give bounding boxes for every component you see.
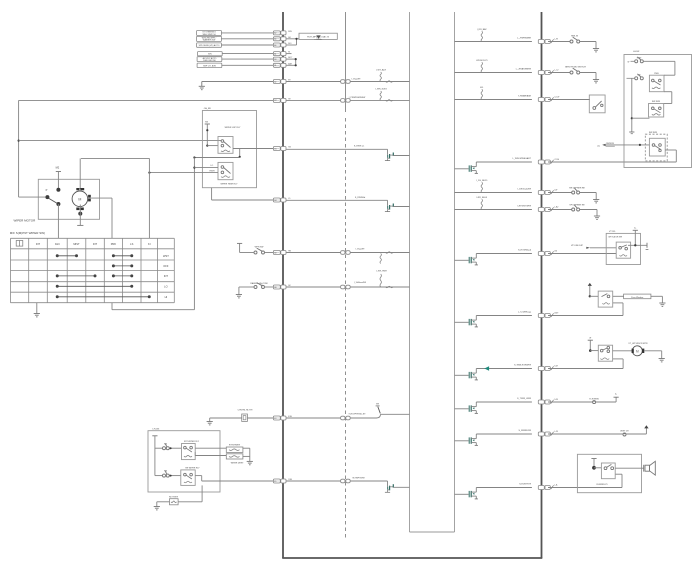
output wire y=434.0 from driver to bus-B — [476, 433, 532, 435]
svg-text:L-W: L-W — [554, 431, 558, 433]
vertical x=112 into table PRK column — [111, 198, 113, 238]
wire L1 to power — [596, 401, 616, 403]
svg-text:9-M: 9-M — [554, 365, 558, 367]
supply wire y=72.5 from inner rail to bus-B — [455, 72, 532, 74]
svg-text:WPR SW: WPR SW — [255, 246, 264, 248]
svg-text:RLWRRLY9: RLWRRLY9 — [596, 484, 608, 486]
relay K4 contacts — [184, 473, 187, 476]
input label box B6 — [197, 63, 222, 68]
internal wire y=287 bus-A to inner module — [286, 286, 409, 288]
svg-text:I_DEGradaW9: I_DEGradaW9 — [517, 188, 532, 191]
connector on partition y=481 — [341, 479, 345, 483]
bus-B connector at y=72.5 — [538, 71, 544, 75]
wire from left rail into motor box — [19, 196, 46, 198]
wire to ground y=72.5 — [580, 72, 596, 74]
teal direction arrow on wire y=368.5 — [484, 366, 489, 371]
relay K8 box inside VT RD — [616, 242, 630, 258]
wire y=81.5 to bus-A — [202, 81, 273, 83]
wire relay K3 to resistor R1 — [195, 447, 226, 449]
pass window module box — [624, 294, 651, 299]
svg-text:INT: INT — [164, 274, 169, 278]
power arrow T9 — [644, 425, 648, 428]
svg-text:A1: A1 — [274, 52, 276, 55]
wire feed to relay 1 lower contact — [207, 145, 218, 147]
wire to ground y=41.5 — [580, 41, 596, 43]
ground below R2 link — [247, 460, 253, 462]
svg-text:RT9GRWR9: RT9GRWR9 — [229, 444, 241, 446]
wire to SW3 — [155, 447, 163, 449]
supply wire y=209.5 from inner rail to bus-B — [455, 209, 532, 211]
wire S5 right — [643, 60, 675, 62]
output wire y=487.5 from driver to bus-B — [476, 487, 532, 489]
lamp L2 — [623, 433, 626, 436]
hood switch box — [589, 95, 605, 113]
driver transistor Q at y=368.5 — [455, 374, 469, 376]
output wire y=315.5 from driver to bus-B — [476, 315, 532, 317]
chime loop riser — [621, 474, 623, 487]
svg-text:INT: INT — [93, 242, 98, 246]
svg-text:T-RWARIASE: T-RWARIASE — [518, 95, 531, 98]
svg-text:WRWR DER9: WRWR DER9 — [231, 462, 244, 464]
relay K4 RR WIPER RLY box — [181, 470, 195, 486]
svg-text:IGN: IGN — [55, 242, 60, 246]
relay K3 FRT WIPER RLY box — [182, 444, 196, 460]
wire y=41.5 to horn switch — [548, 41, 570, 43]
relay K2 contacts — [221, 166, 224, 169]
relay K5 box in LH BOX — [649, 75, 664, 92]
svg-text:RWL M: RWL M — [571, 36, 578, 38]
relay K3 coil — [184, 455, 192, 457]
dashed relay box in LH BOX — [645, 134, 667, 161]
inner sub-module left edge — [409, 12, 411, 532]
svg-text:W9: W9 — [376, 403, 379, 405]
svg-text:E3: E3 — [274, 418, 276, 420]
svg-text:VP USE SJP: VP USE SJP — [571, 245, 584, 247]
resistor R3 RLY3GR box — [170, 499, 179, 505]
wire y=402 to turn signal — [548, 401, 593, 403]
bus-B connector at y=487.5 — [538, 486, 544, 490]
svg-text:LS: LS — [130, 242, 133, 246]
svg-text:VT_WP WSCR MTR: VT_WP WSCR MTR — [628, 343, 648, 345]
diode D1 — [316, 35, 321, 38]
svg-text:L-W: L-W — [554, 38, 558, 40]
svg-text:A2: A2 — [274, 32, 276, 35]
svg-text:M: M — [636, 349, 639, 353]
bus-B connector at y=253.5 — [538, 252, 544, 256]
S6 drop rail — [631, 78, 633, 132]
control relay component box — [242, 414, 248, 421]
svg-text:I_9rWaaaW9: I_9rWaaaW9 — [354, 281, 367, 284]
svg-text:S_WWRLRW: S_WWRLRW — [518, 430, 531, 432]
wire from box B2 to connector — [221, 38, 273, 40]
fuse I-RR_BLE9 — [481, 199, 482, 209]
input label box B5 — [197, 57, 222, 62]
bus-B connector at y=162.0 — [538, 160, 544, 164]
wire to SW4 — [155, 475, 163, 477]
svg-text:L_WW WIWEGART: L_WW WIWEGART — [513, 157, 532, 160]
driver transistor Q1 — [387, 149, 389, 154]
power tap inside chime box — [591, 458, 596, 460]
svg-text:RLY9GR9: RLY9GR9 — [169, 496, 179, 498]
svg-text:MIST: MIST — [73, 242, 80, 246]
park switch contacts — [56, 188, 60, 192]
lamp L1 — [593, 401, 596, 404]
chime feed node — [592, 466, 596, 470]
svg-text:L_-PWRWM9E: L_-PWRWM9E — [517, 38, 532, 40]
park contact P — [45, 195, 49, 199]
internal wire y=81.5 bus-A to inner module — [286, 81, 409, 83]
input label box B3 — [197, 43, 222, 47]
relay K1 output wire y=148.5 to bus-A — [233, 148, 273, 150]
svg-text:HI: HI — [165, 295, 168, 299]
svg-text:WASHER SW: WASHER SW — [203, 39, 216, 42]
svg-text:B3: B3 — [274, 59, 276, 61]
svg-text:MW: MW — [288, 31, 292, 33]
LH BOX outer box — [624, 55, 692, 168]
internal wire y=481 to driver Q3 — [286, 480, 387, 482]
motor top feed vertical x=80.2 — [79, 158, 81, 189]
wire y=209.5 to front defogger switch — [548, 209, 572, 211]
bus-A connector at y=481.0 — [273, 479, 280, 483]
svg-text:VT RD: VT RD — [609, 231, 616, 233]
relay K3 contacts — [184, 446, 187, 449]
wire y=140.6 to wiper relay box — [19, 140, 221, 142]
K7 link down to wire y=162 — [675, 150, 677, 162]
wire y=501.8 to resistor R3 — [178, 501, 202, 503]
svg-text:DEFOGR SW: DEFOGR SW — [203, 60, 215, 62]
front defogger switch — [572, 208, 575, 211]
svg-text:(1): (1) — [598, 145, 601, 147]
wire y=487.5 into chime box — [548, 487, 622, 489]
svg-text:Pass Window: Pass Window — [631, 297, 644, 299]
power tap T8 — [614, 396, 619, 398]
rear defogger switch — [572, 191, 575, 194]
connector on partition y=287 — [341, 285, 345, 289]
node joining rows 59.1/65.3 right of bus-A — [286, 58, 296, 60]
driver transistor Q at y=162.0 — [455, 168, 469, 170]
fuse I_RR_BAT — [481, 31, 482, 41]
ground G8 — [593, 199, 599, 201]
wire from box B6 to connector — [222, 64, 273, 66]
washer motor ground — [644, 350, 661, 352]
park switch blade — [49, 198, 57, 203]
svg-text:SPD SENS (VD) AUTO: SPD SENS (VD) AUTO — [199, 44, 220, 47]
ground for control relay wire — [209, 418, 211, 422]
wiper switch logic table grid — [11, 238, 175, 302]
svg-text:S_TWW_LWW: S_TWW_LWW — [517, 398, 531, 400]
svg-text:C2-M: C2-M — [554, 159, 559, 161]
FLEX MFD VD LVA LTD box — [299, 33, 337, 39]
bus-A connector at y=287.0 — [273, 285, 280, 289]
relay K5 to K6 link — [671, 92, 673, 104]
bus-B connector at y=41.5 — [538, 40, 544, 44]
vertical from relay K1 output x=239.7 — [239, 149, 241, 158]
wire y=162 to LH BOX — [548, 161, 676, 163]
wire y=252.5 to bus-A — [240, 252, 254, 254]
junction x=149.4 y=172.6 — [148, 172, 150, 174]
wire K6 left to drop rail — [632, 117, 650, 119]
svg-text:WWT D9: WWT D9 — [620, 431, 629, 433]
bus-B connector at y=315.5 — [538, 314, 544, 318]
washer switch box — [598, 345, 612, 361]
svg-text:B2: B2 — [274, 81, 276, 83]
vertical node rail x=194.4 — [193, 158, 195, 310]
svg-text:I_RR_BAT: I_RR_BAT — [476, 28, 487, 31]
driver transistor Q3 — [387, 481, 389, 486]
svg-text:RW RW9: RW RW9 — [649, 132, 658, 134]
svg-text:WHL SWITCH: WHL SWITCH — [203, 34, 216, 36]
internal wire y=252.5 bus-A to inner module — [286, 252, 409, 254]
output wire y=402.0 from driver to bus-B — [476, 401, 532, 403]
ground drop y=192.5 — [580, 192, 597, 194]
wiper switch SW1 — [254, 251, 257, 254]
svg-text:I-RTWGTWR9: I-RTWGTWR9 — [518, 206, 532, 208]
link R1/R2 right ends — [243, 447, 250, 449]
wire y=100.4 from far-left rail to bus-A — [19, 99, 274, 101]
bus-A connector at y=53.6 — [273, 52, 280, 56]
svg-text:M2: M2 — [274, 252, 277, 254]
relay contact on wire y=418 — [376, 405, 380, 407]
connector on partition y=81.5 — [341, 80, 345, 84]
fuse F1 on wire y=81.5 — [380, 72, 381, 82]
internal partition line (solid top) — [345, 12, 347, 112]
relay K4 output wire to bus-A — [195, 475, 202, 477]
wire y=192.5 to rear defogger switch — [548, 192, 572, 194]
svg-text:I-W: I-W — [554, 189, 557, 191]
svg-text:TLRGWW: TLRGWW — [589, 398, 599, 400]
fuse I_DS_BLR9 — [481, 182, 482, 192]
ground G1 at left end of wire y=81.5 — [201, 82, 203, 87]
svg-text:C9NTRL RLY99: C9NTRL RLY99 — [238, 410, 254, 412]
far-left vertical rail x=18.6 — [18, 100, 20, 197]
bus-A connector at y=148.5 — [273, 147, 280, 151]
wire to speaker — [615, 467, 644, 469]
power tap for washer box — [588, 339, 593, 341]
motor right output wire — [91, 197, 112, 199]
svg-text:LH BX: LH BX — [633, 51, 640, 53]
ground drop y=209.5 — [580, 209, 597, 211]
rain sensor switch SW2 — [254, 286, 257, 289]
wire y=99.5 to hood switch box — [548, 99, 590, 101]
svg-text:I-RR_BLE9: I-RR_BLE9 — [477, 197, 488, 199]
junction x=194.4 y=167.6 — [193, 167, 195, 169]
internal wire y=418 with relay contact jog — [286, 417, 376, 419]
svg-text:W: W — [628, 61, 630, 63]
bus-A connector at y=32.9 — [273, 31, 280, 35]
brake fluid switch — [570, 71, 573, 74]
wire y=200 to bus-A — [212, 199, 274, 201]
motor M1 body — [72, 191, 88, 207]
wire R3 left to ground — [157, 501, 170, 503]
svg-text:C2-W: C2-W — [554, 96, 559, 98]
svg-text:S_RWW9d: S_RWW9d — [355, 197, 366, 199]
svg-text:CA_BX: CA_BX — [204, 107, 212, 110]
wire from park contact into table IGN column — [57, 204, 59, 238]
driver transistor Q at y=487.5 — [455, 493, 469, 495]
svg-text:E5: E5 — [274, 481, 276, 483]
power tap M3 inside relay box — [205, 123, 210, 125]
svg-text:INT: INT — [36, 242, 41, 246]
supply wire y=99.5 from inner rail to bus-B — [455, 99, 532, 101]
bottom-left box LH_B3 — [148, 431, 220, 492]
bus-A connector at y=100.4 — [273, 98, 280, 102]
svg-text:LH_B3: LH_B3 — [153, 428, 160, 430]
svg-text:9L9WP9GR9: 9L9WP9GR9 — [352, 478, 365, 480]
BCM module right bus line — [541, 12, 543, 558]
connector on partition y=252.5 — [341, 251, 345, 255]
internal wire y=200 to driver Q2 — [286, 199, 387, 201]
power tap for wiper switch wire y=252.5 — [237, 242, 242, 244]
switch SW3 — [163, 447, 166, 450]
svg-text:I_WR_SLE3: I_WR_SLE3 — [375, 89, 388, 91]
svg-text:I_DS_BLR9: I_DS_BLR9 — [476, 180, 488, 182]
svg-text:RR DEFRER RE: RR DEFRER RE — [569, 188, 585, 190]
relay K7 box inside dashed box — [649, 138, 665, 156]
motor bottom terminal and ground — [78, 212, 82, 216]
junction far-left rail / wire y=140.6 — [18, 140, 20, 142]
connector on partition y=100.4 — [341, 99, 345, 103]
svg-text:M7: M7 — [274, 100, 277, 102]
svg-text:A5: A5 — [274, 44, 276, 47]
pass window power junction — [589, 295, 591, 297]
svg-text:I_RaaW9: I_RaaW9 — [351, 78, 361, 80]
input label box B1 — [197, 31, 222, 36]
wire y=172.6 from motor feed to relay K2 HIGH contact — [149, 172, 218, 174]
svg-text:WIPER HIGH RLY: WIPER HIGH RLY — [220, 183, 238, 185]
pass window switch box — [598, 291, 613, 307]
wire y=72.5 to brake fluid switch — [548, 72, 570, 74]
wire R2 left — [195, 455, 226, 457]
svg-text:OFF: OFF — [163, 264, 169, 268]
table bottom loop wire — [111, 303, 113, 310]
wire y=253.5 to VT RD box — [548, 253, 616, 255]
wire from box B5 to connector — [222, 58, 273, 60]
relay K1 WIPER LSP RLY box — [218, 137, 233, 154]
wire y=418 left segment — [210, 417, 242, 419]
BCM module left bus line — [282, 12, 284, 558]
ground G9 — [594, 215, 600, 217]
wire y=158.4 from motor top feed — [81, 157, 149, 159]
wire box to washer motor — [613, 350, 632, 352]
node joining rows 38.8/45 right of bus-A — [286, 38, 337, 40]
bus-A connector at y=418.0 — [273, 416, 280, 420]
bus-A connector at y=81.5 — [273, 80, 280, 84]
wire L2 to power — [626, 433, 646, 435]
svg-text:L_9-nWWaaja: L_9-nWWaaja — [518, 312, 532, 314]
speaker SP1 — [643, 465, 645, 472]
VT RD box — [606, 233, 640, 264]
wire node to chime switch — [594, 467, 601, 469]
wire y=287 to bus-A — [239, 286, 254, 288]
svg-text:I-PDM RLY9: I-PDM RLY9 — [476, 60, 488, 62]
svg-text:VP DEFRER RE: VP DEFRER RE — [569, 205, 585, 207]
resistor R2 box — [226, 454, 243, 459]
svg-text:I_RaaW9: I_RaaW9 — [355, 249, 365, 251]
svg-text:S_WWLRGRWR9: S_WWLRGRWR9 — [514, 365, 532, 367]
bus-B connector at y=402.0 — [538, 400, 544, 404]
relay K4 coil — [184, 481, 192, 483]
output wire y=368.5 from driver to bus-B — [476, 368, 532, 370]
svg-text:SG: SG — [288, 147, 291, 149]
power tap T2 inside box — [152, 435, 157, 437]
ground below table INT column — [36, 303, 38, 314]
VT RD output wire — [628, 244, 647, 246]
relay K6 box in LH BOX — [649, 104, 664, 118]
svg-text:LO: LO — [211, 165, 214, 167]
svg-text:L_-RRATWBRW: L_-RRATWBRW — [516, 68, 531, 71]
wire SW4 to relay K4 — [169, 475, 181, 477]
svg-text:RR WIPER RLY: RR WIPER RLY — [185, 467, 200, 469]
wire from box B4 to connector — [222, 53, 273, 55]
bus-B connector at y=99.5 — [538, 98, 544, 102]
relay box bottom output vertical x=211.6 — [211, 188, 213, 200]
output wire y=253.5 from driver to bus-B — [476, 253, 532, 255]
wire y=368.5 to washer motor circuit — [548, 368, 623, 370]
power arrow for pass window — [588, 283, 592, 286]
power rail junction — [634, 244, 636, 246]
internal wire y=148.5 to driver Q1 — [286, 148, 387, 150]
wire y=157.5 from node x=194.4 to x=239.7 — [194, 157, 239, 159]
svg-text:A6: A6 — [274, 38, 276, 41]
bus-A connector at y=252.5 — [273, 251, 280, 255]
svg-text:M4: M4 — [274, 200, 277, 202]
svg-text:W: W — [589, 338, 591, 340]
svg-text:I_PRWRGRWSW: I_PRWRGRWSW — [348, 97, 365, 99]
washer power junction — [589, 349, 592, 352]
wire y=167.6 to relay K2 LO contact — [194, 167, 218, 169]
wire to pass window module — [613, 295, 624, 297]
ground G5 — [154, 506, 160, 508]
wire SW3 to relay K3 — [169, 447, 181, 449]
ground for rain sensor wire y=287 — [238, 287, 240, 295]
wiper motor box — [38, 179, 99, 219]
ground G7 — [593, 79, 599, 81]
svg-text:M6: M6 — [274, 287, 277, 289]
wire y=315.5 to pass window circuit — [548, 315, 623, 317]
svg-text:W9 SJLVR W9: W9 SJLVR W9 — [608, 237, 623, 239]
bus-A connector at y=59.1 — [273, 57, 280, 61]
svg-text:RW RW9: RW RW9 — [652, 101, 661, 103]
wiper relay outer box LH_BX — [202, 111, 256, 188]
wire from box B1 to connector — [221, 32, 273, 34]
svg-text:SNP CTL A/W: SNP CTL A/W — [203, 64, 216, 67]
junction dots on relay box feed — [206, 129, 208, 131]
svg-text:KI: KI — [148, 242, 151, 246]
bus-B connector at y=192.5 — [538, 191, 544, 195]
svg-text:M1: M1 — [274, 148, 277, 150]
chime switch box — [601, 463, 615, 479]
bus-A connector at y=38.8 — [273, 37, 280, 41]
bus-A connector at y=45.0 — [273, 43, 280, 47]
svg-text:M: M — [78, 197, 81, 201]
svg-text:WIPER LSP RLY: WIPER LSP RLY — [225, 127, 241, 129]
wire from box B3 to connector — [221, 44, 273, 46]
table header glyph — [16, 241, 23, 247]
bus-B connector at y=209.5 — [538, 208, 544, 212]
input label box B4 — [198, 52, 223, 56]
inner sub-module bottom edge — [410, 531, 455, 533]
chime box — [577, 454, 641, 492]
svg-text:WIPER MOTOR: WIPER MOTOR — [14, 219, 37, 223]
svg-text:S_RW9 ws: S_RW9 ws — [354, 145, 364, 147]
svg-text:9L9C9P9RGLLS9: 9L9C9P9RGLLS9 — [349, 414, 366, 416]
svg-text:IGN: IGN — [208, 54, 212, 56]
svg-text:9-W: 9-W — [554, 399, 558, 401]
svg-text:B1: B1 — [274, 65, 276, 67]
washer motor M3 — [632, 346, 642, 356]
switch SW4 — [163, 474, 166, 477]
pass window ground — [651, 295, 663, 297]
